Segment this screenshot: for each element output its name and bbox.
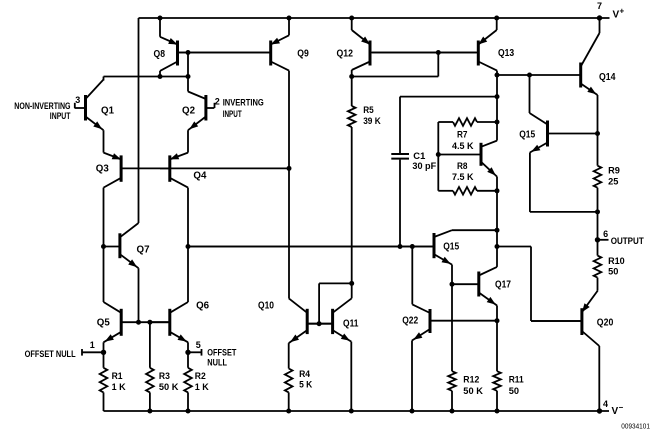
transistor Q7 [104,223,150,268]
wire: Q1 emitter down to Q3 [103,130,105,152]
svg-text:R12: R12 [463,375,479,386]
wire: Q12 emitter to V+ [349,16,354,31]
wire: bus to Q20 base [497,247,581,322]
svg-text:50: 50 [608,267,618,278]
svg-text:INPUT: INPUT [223,109,242,119]
wire: R7/R8 left leg [436,122,441,191]
transistor Q12 [337,30,477,70]
wire: Q11 collector up to R5 [351,283,353,298]
wire: second-stage collector bus lower [495,177,500,267]
svg-text:7.5 K: 7.5 K [452,172,474,183]
svg-text:OUTPUT: OUTPUT [611,236,645,246]
svg-text:4.5 K: 4.5 K [452,141,474,152]
wire: Q12 collector node [349,70,354,79]
svg-text:7: 7 [597,1,602,11]
svg-text:V: V [613,10,620,21]
wire: Q9 collector down to Q10 [287,71,292,299]
node pin 5 offset null [188,340,202,355]
svg-text:Q11: Q11 [343,319,359,330]
label 00934101 [621,422,650,431]
wire: V+ rail [139,17,610,19]
svg-text:5 K: 5 K [299,380,312,391]
transistor Q11 [309,298,359,341]
wire: Q1 collector up [103,77,105,81]
svg-text:Q22: Q22 [402,316,418,327]
resistor R9 25 [594,134,620,215]
svg-text:4: 4 [603,399,608,409]
svg-text:Q17: Q17 [495,280,511,291]
svg-text:Q10: Q10 [258,301,274,312]
transistor Q1 [75,80,115,131]
svg-text:Q6: Q6 [196,301,209,312]
svg-text:Q2: Q2 [182,106,195,117]
wire: Q15 collector to bus [452,229,497,231]
wire: input-stage output to Q15 base [188,244,433,249]
transistor Q15 (driver) [188,230,460,264]
svg-text:R10: R10 [608,256,625,267]
svg-text:50 K: 50 K [463,386,483,397]
svg-text:50: 50 [509,386,519,397]
svg-text:R9: R9 [608,166,620,177]
transistor Q3 [96,153,289,188]
svg-text:Q13: Q13 [498,48,515,59]
svg-text:Q4: Q4 [193,171,206,182]
svg-text:6: 6 [603,229,608,239]
svg-text:R2: R2 [195,371,206,382]
resistor R11 50 [493,371,524,413]
svg-text:Q8: Q8 [154,49,166,60]
node pin 1 offset null [82,340,104,355]
label OFFSET NULL (pin1) [25,349,76,359]
capacitor C1 30pF [391,94,499,246]
wire: Q20 collector to V- rail [598,346,600,411]
svg-text:C1: C1 [413,151,426,162]
resistor R1 1K [100,352,126,411]
svg-text:Q9: Q9 [297,49,309,60]
wire: Q8 collector down [159,71,161,77]
svg-text:R4: R4 [299,369,311,380]
svg-text:Q7: Q7 [137,245,150,256]
svg-text:1 K: 1 K [112,382,126,393]
transistor Q8 [154,37,270,71]
wire: Q5 emitter to pin1 [101,342,106,355]
wire: V- rail [104,410,610,412]
svg-text:50 K: 50 K [159,382,179,393]
transistor Q20 [531,291,614,346]
transistor (VBE multiplier between R7/R8) [438,141,497,177]
svg-text:R8: R8 [457,161,468,172]
wire: Q15 collector up to Q14 base [529,75,531,113]
wire: Q22 collector up [410,244,415,304]
svg-text:1 K: 1 K [195,382,209,393]
wire: Q2 emitter down to Q4 [187,130,189,152]
wire: Q14 emitter down [595,95,600,136]
resistor R10 50 [594,240,625,291]
transistor Q9 [179,35,309,70]
svg-text:NULL: NULL [207,358,227,368]
node pin 3 [75,95,81,108]
svg-text:V: V [612,406,619,417]
junction Q10/Q11 base tie [317,281,355,326]
transistor Q17 [452,267,511,306]
wire: Q17 emitter down [495,306,500,372]
junction Q12 base-collector tie [352,50,441,77]
resistor R5 39K [348,77,381,284]
resistor R3 50K [146,320,179,414]
svg-text:INPUT: INPUT [50,111,71,121]
svg-text:INVERTING: INVERTING [223,97,264,107]
svg-text:Q1: Q1 [101,106,114,117]
label OFFSET NULL (pin5) [207,348,237,368]
wire: Q22 emitter to V- [410,341,415,414]
wire: Q14 collector to V+ [599,18,601,33]
resistor R4 5K [285,343,313,413]
wire: Q2 collector up [187,77,189,92]
node pin 7 V+ terminal [597,1,625,21]
svg-text:30 pF: 30 pF [412,161,436,172]
svg-text:Q15: Q15 [519,130,535,141]
wire: Q4 collector down [186,188,191,302]
transistor Q2 [182,92,214,131]
wire: Q13 collector to Q14 base [527,73,532,78]
svg-text:R1: R1 [112,371,124,382]
svg-text:39 K: 39 K [363,116,381,127]
wire: Q15 emitter to output [530,153,598,212]
svg-text:Q12: Q12 [337,49,354,60]
svg-text:Q20: Q20 [597,318,614,329]
wire: Q7 emitter down [136,268,141,325]
svg-text:−: − [619,403,624,412]
svg-text:R3: R3 [159,371,170,382]
resistor R2 1K [184,352,209,413]
node pin 6 OUTPUT [595,212,644,246]
wire: second-stage collector bus upper [496,75,498,141]
junction Q8 base-collector tie [186,50,191,77]
svg-text:R11: R11 [509,375,525,386]
svg-text:OFFSET: OFFSET [207,348,237,358]
transistor Q5 [97,302,169,342]
resistor R8 7.5K [438,161,499,195]
wire: Q13 emitter to V+ [494,16,499,31]
svg-text:2: 2 [215,97,220,107]
wire: Q11 emitter to V- [349,342,354,414]
wire: Q9 emitter to V+ [287,16,292,36]
wire: Q1/Q2 collector bus [104,74,191,79]
svg-text:00934101: 00934101 [621,422,650,431]
wire: Q13 collector node [495,71,500,78]
wire: Q15 emitter down [450,265,455,372]
svg-text:Q15: Q15 [443,242,459,253]
svg-text:Q3: Q3 [96,164,109,175]
wire: V+ rail down to Q7 collector [138,18,140,223]
transistor Q10 [258,298,331,343]
transistor Q22 [402,304,497,340]
svg-text:+: + [620,7,625,16]
node pin 2 [215,97,220,108]
svg-text:Q14: Q14 [599,72,616,83]
wire: Q6 emitter to pin5 [185,342,190,355]
resistor R7 4.5K [438,118,499,152]
wire: Q8 emitter to V+ [158,16,163,37]
node pin 4 V- terminal [597,399,624,417]
resistor R12 50K [448,371,483,413]
transistor Q4 [160,153,207,188]
svg-text:OFFSET NULL: OFFSET NULL [25,349,76,359]
svg-text:25: 25 [608,177,619,188]
transistor Q14 [497,33,616,95]
svg-text:1: 1 [90,340,95,350]
wire: Q3 collector down [101,188,106,302]
svg-text:R5: R5 [363,105,374,116]
transistor Q6 [150,301,210,343]
label INVERTING INPUT [223,97,264,119]
svg-text:Q5: Q5 [97,318,110,329]
transistor Q15 (output current limit) [519,113,597,153]
svg-text:R7: R7 [457,130,468,141]
svg-text:NON-INVERTING: NON-INVERTING [14,101,70,111]
svg-text:5: 5 [196,340,201,350]
label NON-INVERTING INPUT [14,101,71,121]
transistor Q13 [372,30,515,71]
svg-text:3: 3 [75,95,80,105]
